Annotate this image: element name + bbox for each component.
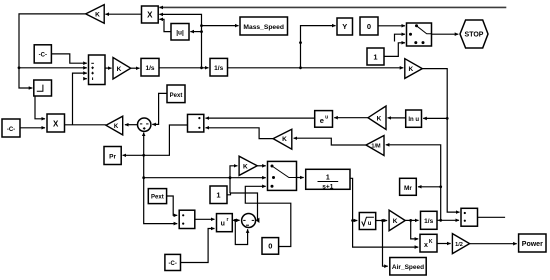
wire: sum1 to K2 [105,67,112,69]
wire: sqrt to K7 [376,220,387,222]
svg-text:K: K [282,136,287,143]
goto Mass_Speed [240,17,288,35]
svg-text:x: x [424,242,428,249]
sum3 [179,210,195,228]
wire: switch2 output to transfer fn [297,177,304,179]
svg-text:|u|: |u| [176,29,184,36]
svg-text:K: K [393,218,398,225]
power block u^r [217,214,233,232]
junction [446,117,449,120]
svg-text:Mass_Speed: Mass_Speed [243,24,284,31]
gain K6 [239,156,257,175]
wire: loop to circle sum2 bottom input [235,220,247,244]
step block [34,80,52,96]
wire: -C-2 to product X2 [20,127,45,129]
junction [229,176,232,179]
wire: branch to abs input [190,31,201,33]
wire: Pext2 to sum3 input1 [167,196,178,215]
wire: K1 output to far left and down [19,14,86,88]
wire: branch down to Air_Speed [383,221,388,267]
gain K2 [113,58,131,80]
wire: branch down to x^K input1 [411,220,419,239]
wire: branch up to Y [301,26,336,68]
svg-text:1: 1 [216,191,220,200]
wire: X2 output / K3 output shared line with branch up to sum1 input3 [65,124,107,126]
wire: 1/s2 output to gain K4 [228,67,404,69]
svg-text:X: X [53,119,59,128]
svg-text:K: K [429,239,433,245]
wire: vertical feed line to X1 input2 [159,14,201,67]
wire: 0 around to switch2 input3 [245,186,290,246]
mux [461,208,478,226]
wire: switch1 to STOP [432,33,459,35]
sum1 [89,55,106,85]
stop block STOP [460,20,488,48]
svg-text:1: 1 [373,52,377,61]
wire: -C-3 up to u^r input2 [181,229,215,263]
svg-text:-C-: -C- [39,53,47,59]
svg-text:Power: Power [522,241,543,248]
from tag Pext 1 [167,85,185,103]
svg-text:-C-: -C- [169,261,177,267]
wire: u^r output to circle sum2 [232,219,239,221]
wire: step block down to X2 input1 [35,96,45,119]
abs |u| [171,24,189,41]
junction [381,219,384,222]
log block ln u [406,110,422,127]
product X2 [47,114,65,132]
wire: mux dangling output [478,216,506,218]
svg-text:Mr: Mr [404,185,412,192]
svg-text:1/M: 1/M [371,144,381,150]
wire: x^K to gain 1/2 [437,243,451,245]
wire: bus down to sum3 input2 [144,178,178,224]
wire: down branch across to circle sum2 right input [230,193,258,220]
gain K5 [368,106,386,130]
wire: 1/s1 to 1/s2 [159,67,209,69]
wire: branch up to gain K6 input [230,166,237,193]
wire: |u| output to X1 input3 [159,19,171,31]
flipped sum2 [188,114,204,132]
gain 1/2 [452,234,469,254]
svg-text:0: 0 [367,22,371,31]
power block x^K [420,234,437,252]
svg-text:Y: Y [342,22,347,31]
stub: sum1 unconnected input4 [85,78,87,80]
svg-text:Pext: Pext [151,195,164,201]
wire: branch to Mass_Speed [202,25,239,27]
svg-text:K: K [114,124,119,130]
constant -C- 1 [34,45,51,63]
wire: sum3 to power u^r [195,218,215,220]
junction [439,219,442,222]
wire: circle sum1 to K3 [125,124,138,126]
from tag Pext 2 [148,189,166,204]
svg-text:u: u [368,221,372,227]
svg-text:r: r [227,217,229,223]
wire: K5 to exp [334,117,368,119]
svg-text:1: 1 [326,175,330,182]
wire: branch to Mr [418,186,441,188]
svg-text:u: u [221,221,225,228]
wire: -C-1 to sum1 input1 [51,54,86,63]
wire: 1/2 to Power [470,243,517,245]
svg-text:K: K [408,66,413,73]
wire: flipped sum2 output down to Pr and long bus [123,125,188,155]
junction [351,219,354,222]
svg-text:ln u: ln u [408,117,419,123]
svg-text:0: 0 [268,242,272,251]
transfer fn 1/(s+1) [306,169,350,190]
svg-text:K: K [117,66,122,73]
svg-text:1/2: 1/2 [455,242,463,248]
constant 0 [360,17,378,35]
constant -C- 2 [2,119,20,137]
wire: up to circle sum1 bottom [143,133,145,156]
goto Power [519,234,546,252]
junction [234,219,237,222]
terminator Y [337,18,353,35]
svg-text:STOP: STOP [465,32,484,39]
gain K1 [86,5,105,24]
svg-text:K: K [377,115,382,122]
wire: branch to sqrt [353,220,358,222]
wire: K4 down right side to mux input1 [422,69,459,213]
svg-text:1/s: 1/s [145,65,154,72]
junction [142,176,145,179]
wire: 1 joins line to circle sum2 [227,193,231,195]
wire: Pext1 down to circle sum1 right input [152,93,167,124]
gain K5b [273,129,292,149]
junction [439,185,442,188]
product X1 [142,6,159,23]
wire: branch up to 1/M and Mr [386,145,441,221]
wire: branch to ln u [423,117,447,119]
junction [142,154,145,157]
wire: K5b to flipped sum2 input2 [206,128,274,139]
svg-text:1/s: 1/s [424,218,433,225]
constant 1 [367,48,384,65]
integrator 1/s 1 [141,58,159,76]
exp block e^u [315,111,333,128]
svg-text:K: K [95,11,100,18]
constant 1 (2) [210,186,227,204]
gain 1/M [366,136,384,156]
sum circle 1 [138,118,151,131]
wire: 0 to switch1 input1 [378,25,405,27]
svg-text:Pext: Pext [170,93,183,99]
junction [200,66,203,69]
constant 0 (2) [262,238,279,255]
wire: K2 to 1/s1 [131,67,140,69]
wire: 1 to switch1 input3 [384,43,405,57]
wire: K6 to switch2 input1 [257,165,266,167]
gain K3 [106,116,123,135]
goto Air_Speed [390,258,426,276]
svg-text:s+1: s+1 [322,183,333,190]
from tag Pr [104,147,121,165]
wire: dangling top line into product X1 [159,6,506,8]
integrator 1/s 2 [210,58,228,76]
wire: 1/s3 to mux input2 [437,219,459,221]
wire: exp output to flipped sum2 input1 [206,117,315,119]
svg-text:Pr: Pr [109,154,116,161]
goto Mr [400,178,417,195]
constant -C- 3 [165,254,181,270]
junction [200,24,203,27]
integrator 1/s 3 [421,211,438,229]
gain K4 [405,59,423,79]
sqrt block [359,213,375,230]
svg-text:K: K [243,163,248,170]
junction [409,219,412,222]
wire: K7 to 1/s3 [405,219,418,221]
svg-text:u: u [325,115,328,121]
svg-text:X: X [147,11,153,20]
wire: stub into switch1 input2 [395,34,406,41]
sum circle 2 [242,214,256,228]
wire: X1 output to K1 [105,13,141,15]
wire: branch to sum1 input2 [19,67,87,69]
wire: down then long bus right to switch2 input2 [144,155,266,177]
gain K7 [389,210,405,231]
svg-text:Air_Speed: Air_Speed [392,264,424,271]
wire: transfer fn out, down, to x^K input2 [350,178,418,247]
junction [299,41,302,44]
wire: ln u to K5 [388,117,406,119]
wire: 1/M output to K5b [294,138,366,145]
svg-text:-C-: -C- [7,127,15,133]
switch2 [268,161,297,190]
junction [299,66,302,69]
switch1 [407,23,432,46]
svg-text:e: e [320,116,324,125]
junction [18,66,21,69]
junction [200,30,203,33]
svg-text:1/s: 1/s [214,65,223,72]
